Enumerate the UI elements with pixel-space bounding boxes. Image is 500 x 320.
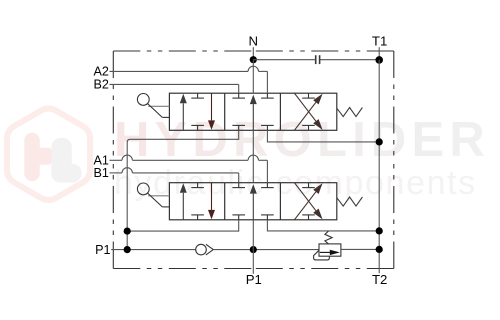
- node T1 junction: [375, 56, 383, 64]
- relief valve RV1 arrow: [320, 251, 331, 253]
- wire valve V2 port A to tank line: [267, 220, 379, 231]
- svg-text:B1: B1: [93, 166, 108, 180]
- wire P1 to relief: [213, 249, 319, 251]
- enclosure dashed border: [113, 51, 394, 269]
- valve V2 box3 crossed arrows: [294, 192, 316, 220]
- svg-text:N: N: [249, 34, 259, 49]
- valve V1 box2 blocked ports: [238, 93, 240, 98]
- wire valve V2 port B to pressure gallery: [127, 220, 239, 231]
- svg-text:P1: P1: [95, 243, 110, 257]
- wire carry-over V2 to bottom port P1: [252, 220, 254, 274]
- plug symbol: [315, 55, 317, 64]
- wire T1 stub: [378, 47, 380, 60]
- relief valve RV1 pilot line: [314, 250, 330, 260]
- wire A1: [110, 159, 123, 161]
- relief valve RV1 body: [319, 244, 341, 256]
- wire B1: [110, 172, 123, 174]
- valve V1 box3 blocked ports: [308, 93, 310, 98]
- node pressure gallery junction: [124, 228, 131, 235]
- valve section V1 body: [169, 93, 336, 130]
- node valve V1 tank junction: [376, 138, 383, 145]
- valve V2 box1 up arrow: [182, 193, 184, 220]
- relief valve RV1 spring: [325, 231, 332, 244]
- valve V1 box2 center up arrow: [252, 104, 254, 130]
- wire tank line T: [378, 60, 380, 273]
- valve V1 lever actuator: [137, 94, 149, 106]
- wire valve V1 port A to tank line: [267, 130, 379, 142]
- svg-text:P1: P1: [246, 272, 262, 287]
- svg-text:T2: T2: [372, 272, 387, 287]
- wire N to T1 with plug: [253, 59, 315, 61]
- wire P1 inlet: [111, 249, 196, 251]
- wire carry-over V1 to V2: [252, 130, 254, 182]
- svg-text:A2: A2: [93, 64, 108, 78]
- check valve CV1: [196, 244, 207, 255]
- wire N to valve V1 inlet: [252, 60, 254, 93]
- valve V1 box1 down arrow: [211, 93, 213, 120]
- wire N stub: [252, 47, 254, 60]
- wire valve V1 port B to pressure gallery: [127, 130, 239, 249]
- valve V1 box1 up arrow: [182, 103, 184, 130]
- valve V1 box3 crossed arrows: [294, 102, 316, 130]
- watermark logo letter L: [51, 138, 71, 183]
- svg-text:B2: B2: [93, 77, 108, 91]
- valve V2 return spring: [337, 197, 363, 206]
- valve V1 return spring: [337, 108, 363, 117]
- valve V2 lever actuator: [137, 183, 149, 195]
- valve V2 box3 blocked ports: [308, 183, 310, 188]
- node N junction: [250, 56, 257, 63]
- svg-text:T1: T1: [372, 34, 387, 49]
- node valve V2 tank junction: [376, 227, 383, 234]
- node relief tank junction: [376, 246, 383, 253]
- wire relief to tank line: [341, 248, 379, 250]
- valve section V2 body: [169, 183, 336, 220]
- wire B2: [110, 83, 239, 85]
- valve V2 box1 blocked ports: [197, 183, 199, 188]
- node carry-over to P junction: [250, 246, 257, 253]
- valve V1 box1 blocked ports: [197, 93, 199, 98]
- valve V2 box2 blocked ports: [238, 183, 240, 188]
- valve V2 box1 down arrow: [211, 183, 213, 210]
- watermark logo letter h: [24, 133, 40, 181]
- node P1 inlet junction: [124, 246, 131, 253]
- valve V2 box2 center up arrow: [252, 194, 254, 220]
- wire A2: [110, 70, 249, 72]
- watermark logo hexagon: [7, 109, 90, 201]
